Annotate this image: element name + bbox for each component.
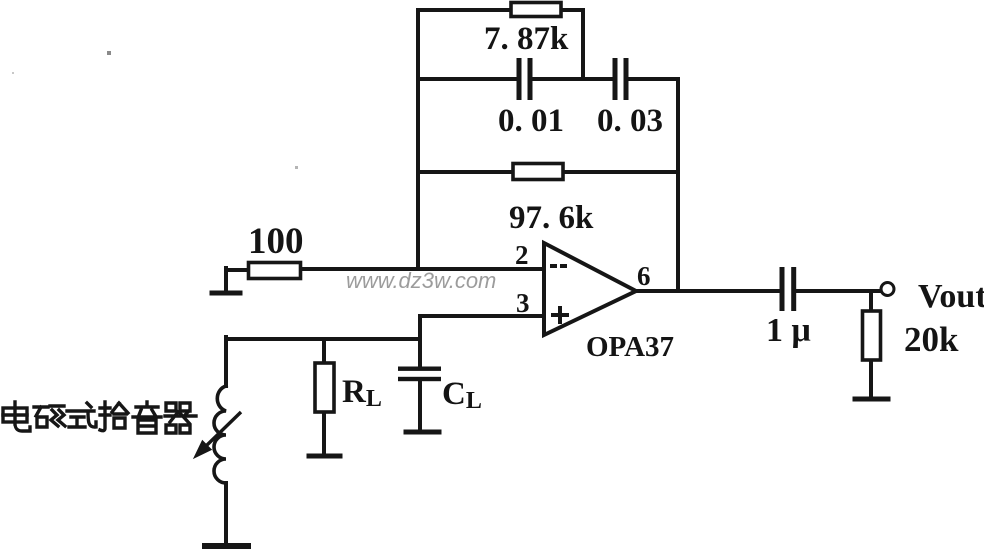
char ci: [34, 406, 65, 427]
svg-text:www.dz3w.com: www.dz3w.com: [346, 268, 496, 293]
ground at input: [212, 291, 240, 296]
wire coil top vertical: [224, 337, 228, 386]
wire top loop left vertical: [416, 10, 420, 269]
ground at RL: [309, 454, 340, 459]
inductor pickup coil: [214, 386, 226, 483]
wire RL/CL row horizontal: [226, 337, 420, 341]
resistor 97.6k: [513, 164, 563, 180]
svg-text:100: 100: [248, 221, 304, 262]
svg-text:OPA37: OPA37: [586, 331, 674, 363]
capacitor 1u plates: [780, 267, 797, 311]
svg-text:RL: RL: [342, 374, 382, 412]
svg-text:Vout: Vout: [918, 278, 984, 315]
op-amp minus symbol: [550, 264, 567, 268]
capacitor 0.03 plates: [613, 58, 629, 100]
char dian: [3, 402, 30, 431]
resistor 7.87k: [511, 3, 561, 17]
svg-text:7. 87k: 7. 87k: [484, 21, 569, 57]
wire node B vertical (pin3 to CL): [418, 316, 422, 366]
wire 20k bottom lead: [869, 360, 873, 397]
char shi2 (pick): [100, 402, 128, 431]
resistor RL body: [315, 363, 334, 412]
char qi: [165, 403, 196, 433]
char shi (style): [67, 403, 96, 427]
svg-text:3: 3: [516, 288, 530, 318]
wire RL bottom lead: [322, 412, 326, 454]
wire inverting input to pin 2: [301, 267, 544, 271]
resistor 20k: [863, 311, 881, 360]
wire input resistor left lead: [226, 268, 248, 292]
svg-text:1 μ: 1 μ: [766, 312, 811, 349]
wire CL bottom lead: [418, 381, 422, 430]
svg-text:6: 6: [637, 261, 651, 291]
wire op-amp output: [634, 289, 780, 293]
resistor 100: [249, 263, 301, 279]
op-amp plus symbol: [551, 306, 569, 324]
svg-text:20k: 20k: [904, 320, 959, 359]
wire pin 3 horizontal: [420, 314, 544, 318]
svg-text:0. 01: 0. 01: [498, 103, 564, 139]
svg-text:0. 03: 0. 03: [597, 103, 663, 139]
svg-text:97. 6k: 97. 6k: [509, 200, 594, 236]
pickup arrow: [195, 412, 241, 457]
wire coil bottom vertical: [224, 483, 228, 544]
ground at coil: [205, 543, 248, 549]
capacitor CL plates: [398, 367, 441, 382]
label pickup Chinese text 电磁式拾音器: [3, 402, 196, 433]
wire RL top lead: [322, 339, 326, 363]
svg-text:CL: CL: [442, 376, 482, 414]
wire 20k top lead: [869, 291, 873, 311]
wire top loop right vertical: [581, 10, 585, 79]
ground at CL: [406, 430, 439, 435]
char yin: [133, 402, 161, 433]
op-amp U1 OPA37 triangle: [544, 243, 636, 335]
scan speck: [107, 51, 111, 55]
capacitor 0.01 plates: [517, 58, 533, 100]
wire capacitor row horizontal: [418, 77, 517, 81]
wire 97.6k row horizontal: [418, 170, 678, 174]
ground at 20k: [855, 397, 888, 402]
wire top horizontal: [418, 8, 583, 12]
wire outer loop right vertical: [676, 79, 680, 291]
output terminal circle: [881, 283, 894, 296]
svg-text:2: 2: [515, 240, 529, 270]
